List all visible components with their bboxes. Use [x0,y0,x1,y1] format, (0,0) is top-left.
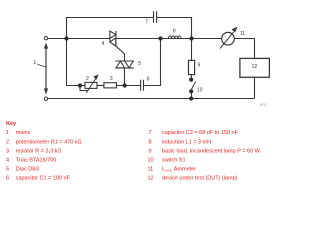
svg-text:5: 5 [138,61,141,67]
wire lamp branch vertical [191,39,193,99]
svg-text:9: 9 [198,63,201,69]
svg-text:8: 8 [173,29,176,35]
svg-text:IEC: IEC [260,103,267,107]
svg-text:4: 4 [6,158,9,164]
terminal upper mains [44,37,47,40]
node diac/pot branch junction [123,83,127,87]
svg-text:2: 2 [6,139,9,145]
svg-text:Key: Key [6,121,17,127]
resistor R (3) body [104,83,117,88]
svg-text:3: 3 [6,148,9,154]
svg-text:Diac DB3: Diac DB3 [16,167,39,173]
wire pot to resistor [97,85,104,87]
wire capacitor C1 to riser [144,39,160,86]
svg-text:device under test (DUT) (lamp): device under test (DUT) (lamp) [162,176,238,182]
svg-text:11: 11 [240,31,245,37]
svg-text:basic load, incandescent lamp: basic load, incandescent lamp P = 60 W [162,148,261,154]
node main/C2 riser junction [158,36,162,40]
node switch bottom terminal [189,89,193,93]
ammeter (11) arrow [220,27,238,49]
wire resistor to diac node [116,85,140,87]
potentiometer R1 (2) body [85,82,97,88]
wire right riser top to main [191,18,193,39]
capacitor C1 (6) [141,80,144,91]
wire wiper tie [80,86,88,91]
wire ammeter to corner and down to DUT [234,39,254,59]
svg-text:potentiometer R1 = 470 kΩ: potentiometer R1 = 470 kΩ [16,139,82,145]
svg-text:4: 4 [102,41,105,47]
svg-text:7: 7 [149,130,152,136]
svg-text:2: 2 [86,76,89,82]
svg-text:1: 1 [6,130,9,136]
svg-text:switch S1: switch S1 [162,158,186,164]
wire left riser top to main [66,18,68,39]
node bottom wire junction [189,96,193,100]
node main/lamp branch junction [189,36,193,40]
svg-text:9: 9 [149,148,152,154]
potentiometer R1 (2) wiper arrow [86,74,98,93]
svg-text:11: 11 [148,167,154,173]
wire main horizontal left segment [48,38,110,40]
svg-text:12: 12 [252,64,258,70]
wire left riser main down to potentiometer branch [66,39,85,86]
svg-text:5: 5 [6,167,9,173]
svg-text:1: 1 [33,60,36,66]
wire top loop horizontal [66,17,192,19]
svg-text:10: 10 [197,88,203,94]
svg-text:6: 6 [147,77,150,83]
svg-text:capacitor C2 = 68 nF to 150 nF: capacitor C2 = 68 nF to 150 nF [162,130,239,136]
diac (5) [115,61,133,68]
svg-text:8: 8 [149,139,152,145]
svg-text:12: 12 [148,176,154,182]
wire diac bottom lead [124,68,126,86]
svg-text:10: 10 [148,158,154,164]
lamp load R (9) body [189,60,195,74]
svg-text:6: 6 [6,176,9,182]
wire gate diagonal and diac top lead [116,46,125,61]
svg-text:7: 7 [145,19,148,25]
ammeter (11) body [222,32,235,45]
switch S1 (10) blade [191,81,196,90]
inductor L1 (8) [168,36,181,39]
svg-text:3: 3 [110,76,113,82]
mains source arrow 1 [44,42,48,94]
capacitor C2 (7) [154,11,157,23]
DUT (12) body [240,58,270,77]
wire main horizontal right segment [116,38,222,40]
svg-text:induction L1 = 3 mH: induction L1 = 3 mH [162,139,211,145]
node wiper tie junction [78,83,82,87]
svg-text:capacitor C1 = 100 nF: capacitor C1 = 100 nF [16,176,71,182]
node switch top terminal [189,78,193,82]
svg-text:Triac BTA16/700: Triac BTA16/700 [16,158,57,164]
label 1 leader [37,64,45,67]
terminal lower mains [44,97,47,100]
wire bottom horizontal [48,77,255,98]
triac (4) [110,31,116,46]
node main/left riser junction [64,36,68,40]
svg-text:resistor R = 3,3 kΩ: resistor R = 3,3 kΩ [16,148,62,154]
svg-text:mains: mains [16,130,31,136]
